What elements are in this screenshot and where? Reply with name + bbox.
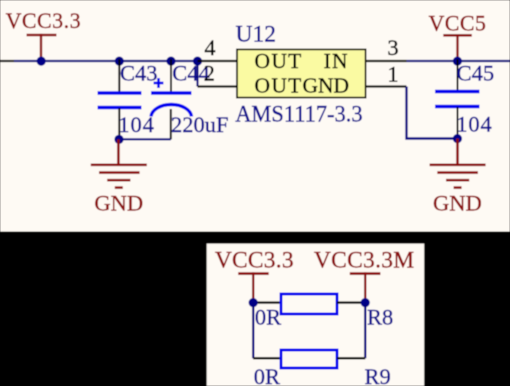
node: VCC5 junction bbox=[453, 57, 462, 66]
node: GND junction right bbox=[453, 134, 462, 143]
wire: left rail stub (black) bbox=[0, 60, 14, 62]
node: right junction (bottom) bbox=[361, 298, 370, 307]
pin 3 of U12 bbox=[366, 60, 407, 62]
svg-text:GND: GND bbox=[433, 191, 482, 216]
wire: main VCC3.3 rail bbox=[14, 60, 198, 62]
node: VCC3.3 junction bbox=[37, 57, 46, 66]
svg-text:U12: U12 bbox=[236, 21, 276, 47]
power symbol VCC5 bbox=[429, 10, 487, 61]
svg-text:104: 104 bbox=[118, 112, 154, 137]
svg-text:VCC3.3: VCC3.3 bbox=[215, 248, 294, 274]
power symbol VCC3.3 bbox=[6, 8, 81, 61]
svg-text:4: 4 bbox=[204, 35, 215, 60]
wire: right riser to R9 bbox=[364, 303, 366, 359]
power symbol VCC3.3 (bottom window) bbox=[215, 248, 294, 303]
svg-text:AMS1117-3.3: AMS1117-3.3 bbox=[235, 101, 362, 127]
svg-text:0R: 0R bbox=[255, 304, 281, 329]
svg-text:IN: IN bbox=[324, 49, 349, 73]
node: C43 top junction bbox=[115, 57, 124, 66]
pin 2 of U12 bbox=[198, 85, 238, 87]
black backdrop (bottom) bbox=[0, 232, 510, 386]
svg-text:VCC3.3M: VCC3.3M bbox=[314, 248, 415, 274]
wire: VCC5 rail bbox=[407, 60, 510, 62]
node: C44 top junction bbox=[166, 57, 175, 66]
node: left junction (bottom) bbox=[249, 298, 258, 307]
pin 1 of U12 bbox=[366, 85, 407, 87]
ground GND (right) bbox=[430, 139, 486, 216]
schematic sheet background (top) bbox=[0, 0, 510, 232]
wire: pin2 riser bbox=[196, 61, 198, 87]
svg-text:2: 2 bbox=[204, 60, 215, 85]
power symbol VCC3.3M (bottom window) bbox=[314, 248, 415, 303]
resistor R9 (0R) bbox=[253, 350, 391, 386]
wire: left riser to R9 bbox=[252, 303, 254, 359]
pin 4 of U12 bbox=[198, 60, 238, 62]
node: GND junction left bbox=[114, 135, 123, 144]
schematic window background (bottom) bbox=[207, 244, 425, 386]
svg-text:1: 1 bbox=[387, 62, 398, 87]
svg-text:220uF: 220uF bbox=[171, 112, 229, 137]
svg-text:0R: 0R bbox=[254, 364, 280, 386]
capacitor C43 bbox=[98, 59, 158, 140]
svg-text:VCC5: VCC5 bbox=[429, 10, 487, 35]
svg-text:R9: R9 bbox=[365, 364, 391, 386]
svg-text:OUT: OUT bbox=[255, 74, 303, 98]
svg-text:GND: GND bbox=[303, 74, 350, 98]
svg-text:C45: C45 bbox=[457, 60, 495, 85]
resistor R8 (0R) bbox=[253, 294, 393, 330]
svg-text:R8: R8 bbox=[367, 305, 393, 330]
ground GND (left) bbox=[91, 139, 147, 215]
svg-text:GND: GND bbox=[94, 191, 143, 216]
svg-text:VCC3.3: VCC3.3 bbox=[6, 8, 81, 33]
wire: pin1 to ground net bbox=[407, 87, 458, 139]
svg-text:OUT: OUT bbox=[255, 49, 303, 73]
regulator U12 AMS1117-3.3 bbox=[235, 21, 365, 127]
capacitor C45 bbox=[435, 59, 494, 139]
svg-text:104: 104 bbox=[456, 112, 492, 137]
wire: bottom rail C43-C44 bbox=[119, 138, 171, 140]
node: pin4/pin2 junction bbox=[193, 57, 202, 66]
capacitor C44 (polarized 220uF) bbox=[151, 59, 229, 139]
svg-text:3: 3 bbox=[387, 35, 398, 60]
svg-text:C43: C43 bbox=[120, 61, 158, 86]
